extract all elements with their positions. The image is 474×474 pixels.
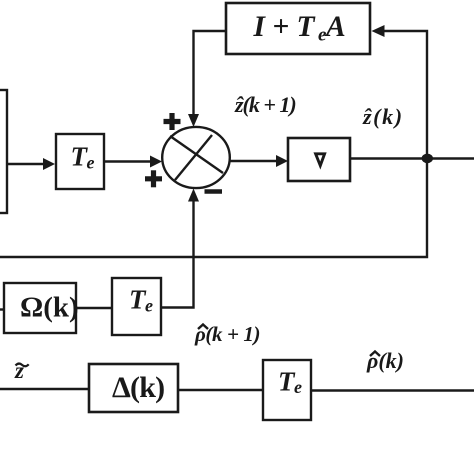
wire: node up and into I+TeA right side with arrow — [372, 25, 428, 158]
svg-text:Ω(k): Ω(k) — [20, 292, 79, 324]
block Delta(k) — [89, 364, 178, 412]
svg-text:Δ(k): Δ(k) — [112, 371, 164, 404]
block Te (bottom row) — [263, 360, 311, 420]
wire: Te to right edge — [311, 389, 474, 391]
summing junction circle with X — [162, 127, 230, 188]
svg-text:ẑ(k + 1): ẑ(k + 1) — [234, 92, 296, 117]
block Te (middle row) — [112, 278, 161, 335]
wire: feedback from node down and left to input (clipped at left) — [0, 158, 427, 257]
block I + TeA — [226, 3, 370, 54]
svg-text:z: z — [14, 358, 24, 383]
plus sign (left input) — [145, 170, 162, 187]
svg-text:ρ(k): ρ(k) — [366, 348, 404, 373]
svg-text:ẑ(k): ẑ(k) — [362, 104, 404, 129]
svg-text:I + T: I + T — [253, 11, 316, 43]
svg-text:e: e — [87, 153, 95, 173]
minus sign (bottom input) — [205, 189, 223, 194]
wire: Delta to Te — [178, 389, 263, 391]
wire: nabla to output edge through node — [350, 157, 474, 159]
wire: feedback from I+TeA down into summing junction (top arrow) — [188, 31, 226, 127]
wire: left edge to Delta box — [0, 388, 89, 390]
wire: summing junction to nabla box with arrow — [230, 155, 288, 167]
plus sign (top input) — [164, 113, 181, 130]
wire: left edge into Omega box — [0, 308, 4, 310]
block: left input box (clipped at image edge) — [0, 90, 7, 213]
svg-text:e: e — [145, 296, 153, 316]
svg-text:e: e — [294, 377, 302, 397]
label z-tilde — [14, 358, 29, 383]
wire: bottom arrow into summing junction from Omega path — [161, 189, 199, 308]
block Te (top row) — [56, 134, 104, 189]
wire: Omega to Te — [76, 307, 112, 309]
label rho-hat(k+1) — [194, 322, 260, 346]
wire: Te to summing junction with arrow — [104, 156, 162, 168]
wire: left box to Te with arrow — [7, 158, 55, 170]
svg-text:A: A — [324, 11, 346, 43]
block nabla — [288, 138, 350, 181]
block Omega(k) — [4, 283, 79, 333]
label rho-hat(k) — [366, 348, 404, 373]
node: junction dot — [422, 154, 433, 164]
